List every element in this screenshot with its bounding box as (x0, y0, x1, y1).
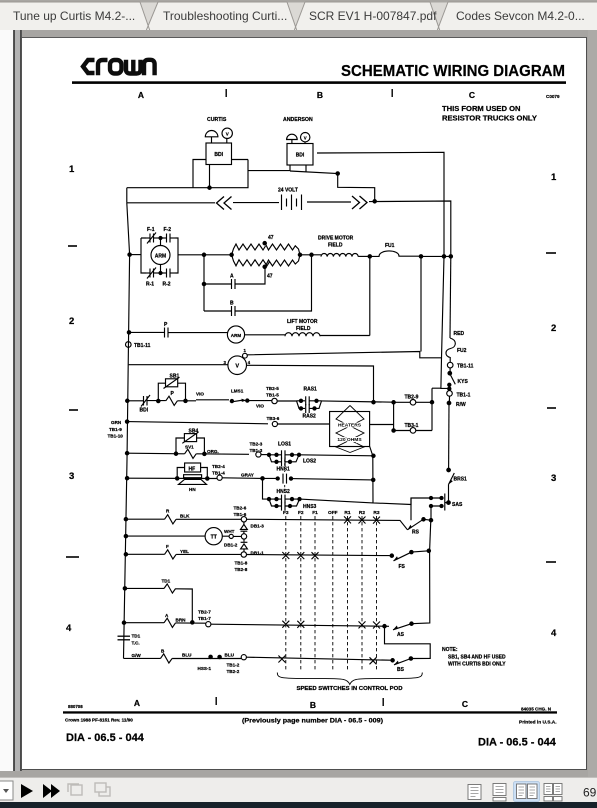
terminal TB1-1 (447, 391, 471, 403)
wire BLK row to RS (247, 519, 408, 530)
crossing X marks BLK row (344, 516, 380, 523)
contact F-2 (166, 234, 168, 243)
contacts HNS2 / HNS3 (263, 478, 412, 510)
contactor P (127, 322, 227, 338)
left white sliver (edge of left page) (0, 30, 14, 771)
SCHEMA2 (108, 256, 474, 550)
wire: drive row down to V pin1 row (420, 256, 422, 351)
wire: bus y=188 from left rail to step (127, 160, 290, 188)
voltmeter V (129, 348, 251, 375)
wire: BDI U1 bottom pin to bus (208, 165, 211, 190)
wire: SAS to RS junction (411, 498, 431, 551)
capacitor T.C. on left rail (118, 634, 141, 646)
tab bar (0, 0, 597, 30)
resistor bank R 47 ohm (4 in series-parallel) (232, 235, 321, 280)
limit switch LMS1 (230, 388, 272, 408)
HEADER (66, 60, 566, 639)
terminal TB2-5 TB1-5 (266, 386, 297, 404)
CROWN logo (83, 60, 155, 75)
wire: BDI U1 left pin down to bus (193, 160, 206, 188)
horn relay HF with horn HN (125, 463, 217, 492)
node R/W (447, 401, 466, 470)
terminal TB3-1 (392, 423, 432, 433)
contactor B (bypass) (204, 255, 312, 316)
svg-text:69: 69 (583, 786, 597, 800)
terminal TB1-8 TB2-8 (235, 561, 248, 573)
right gray strip (scrollbar area) (588, 30, 597, 777)
drive motor field L1 (318, 236, 371, 259)
svg-text:Codes Sevcon M4.2-0...: Codes Sevcon M4.2-0... (456, 9, 585, 23)
wire VIO (196, 392, 229, 400)
note text (442, 647, 506, 668)
margin row numbers (66, 164, 557, 639)
terminal TB1-11 (right) (447, 362, 473, 375)
wire labels GRN TB1-9 TB1-10 (108, 420, 124, 439)
play (21, 784, 33, 798)
breaker SB1 with P contact (157, 374, 188, 406)
wire: BDI U2 pins down to bus (290, 165, 306, 172)
dark bottom strip (0, 802, 597, 808)
combo box stub (0, 781, 13, 800)
page layout icons (468, 784, 506, 802)
right rail A down to KYS foot (441, 256, 449, 388)
wire: TB2-9 to TB3-1 vertical (393, 402, 395, 430)
wire: heaters to TB vertical (370, 424, 394, 426)
contact F-1 (149, 234, 151, 243)
connector arrows right (352, 196, 367, 209)
contact R-2 (166, 269, 168, 278)
switch FS (394, 549, 431, 570)
contactor A (bypass) (202, 255, 265, 311)
FOOTER (63, 697, 557, 749)
lift motor armature ARM (227, 326, 285, 343)
node GRN row (125, 420, 268, 424)
contacts LOS1 / LOS2 (267, 442, 373, 467)
terminal TB2-6 TB1-6 (234, 506, 247, 523)
heater resistors HEATERS 120 OHMS (330, 406, 370, 453)
terminal TB3-6 (267, 416, 330, 427)
contact A with wire BRN (122, 613, 205, 627)
breaker SB4 with SV1 (125, 429, 249, 459)
wire YEL row to FS (247, 554, 394, 557)
terminal TB2-3 TB1-3 (250, 442, 270, 458)
connector arrows left (217, 197, 232, 210)
wire: V pin 4 to RAS row (247, 365, 376, 404)
contact HNS1 (263, 460, 374, 484)
node: left rail / ARM row (128, 253, 131, 256)
brake switch BRS1 (447, 468, 467, 502)
status bar (0, 777, 597, 802)
contact B with wire G/W BLU (124, 649, 395, 675)
switch AS (393, 551, 430, 638)
BDI unit U2 label ANDERSON (283, 117, 313, 123)
wire: BDI U1 right pin to step (232, 159, 249, 161)
wire label RED (454, 331, 465, 337)
battery B1 24 VOLT (127, 188, 451, 257)
contacts RAS1 / RAS2 (297, 386, 394, 419)
disabled window icons (68, 783, 110, 796)
wire: LOS/HNS collector vertical (370, 447, 375, 504)
crossing X marks BRN row (282, 621, 380, 629)
speed switch columns F3 F2 F1 OFF R1 R2 R3 (286, 516, 377, 672)
contact R-1 (149, 269, 151, 278)
fuse FU1 (370, 243, 453, 258)
terminal TB2-7 TB1-7 (198, 610, 389, 627)
switch BS (383, 625, 430, 674)
SCHEMA1 (124, 117, 453, 658)
timer contact TD1 (123, 579, 194, 625)
wire ARM row to resistor bank (178, 253, 233, 256)
wire: BDI U2 right pin to right rail (317, 152, 444, 256)
node TB1-11 on left rail (126, 342, 151, 349)
terminal TB2-4 TB1-4 (212, 464, 263, 480)
diode DB1-2 (241, 539, 265, 555)
gutter strip between pages (14, 30, 21, 771)
wire: TB2-9 riser to KYS foot (432, 388, 441, 430)
svg-text:Tune up Curtis M4.2-...: Tune up Curtis M4.2-... (13, 9, 135, 23)
crossing X marks G/W row (278, 656, 376, 665)
fuse FU2 (446, 338, 467, 362)
wire GRAY (241, 473, 264, 481)
BDI U1 (Curtis battery discharge indicator) (205, 128, 232, 164)
BDI unit U1 label CURTIS (207, 117, 227, 123)
contact BDI (126, 395, 196, 414)
contactor block: drive armature ARM with F/R contacts (130, 227, 178, 288)
thermal sensor TT with wire WHT (124, 528, 246, 548)
svg-text:Troubleshooting Curti...: Troubleshooting Curti... (163, 9, 287, 23)
left rail (negative bus) (124, 188, 130, 659)
BDI U2 (Anderson battery discharge indicator) (287, 133, 313, 166)
key switch KYS (448, 374, 469, 391)
wire: bus to battery positive (290, 171, 376, 203)
contact R with wire BLK (124, 509, 241, 524)
lift motor field L2 (285, 256, 370, 336)
switch RS (408, 518, 433, 536)
switch SAS (429, 494, 463, 511)
crossing X marks YEL row (282, 552, 318, 559)
contact F with wire YEL (124, 544, 246, 559)
diode DB1-3 (241, 522, 265, 534)
svg-text:SCR EV1 H-007847.pdf: SCR EV1 H-007847.pdf (309, 9, 437, 23)
right rail B (449, 256, 452, 338)
SCHEMA3 (118, 506, 507, 693)
terminal TB2-9 (392, 395, 434, 406)
fast forward (43, 784, 52, 798)
brace: speed switches in control pod (277, 673, 422, 693)
wire: V pin 1 to right rail (247, 352, 441, 358)
